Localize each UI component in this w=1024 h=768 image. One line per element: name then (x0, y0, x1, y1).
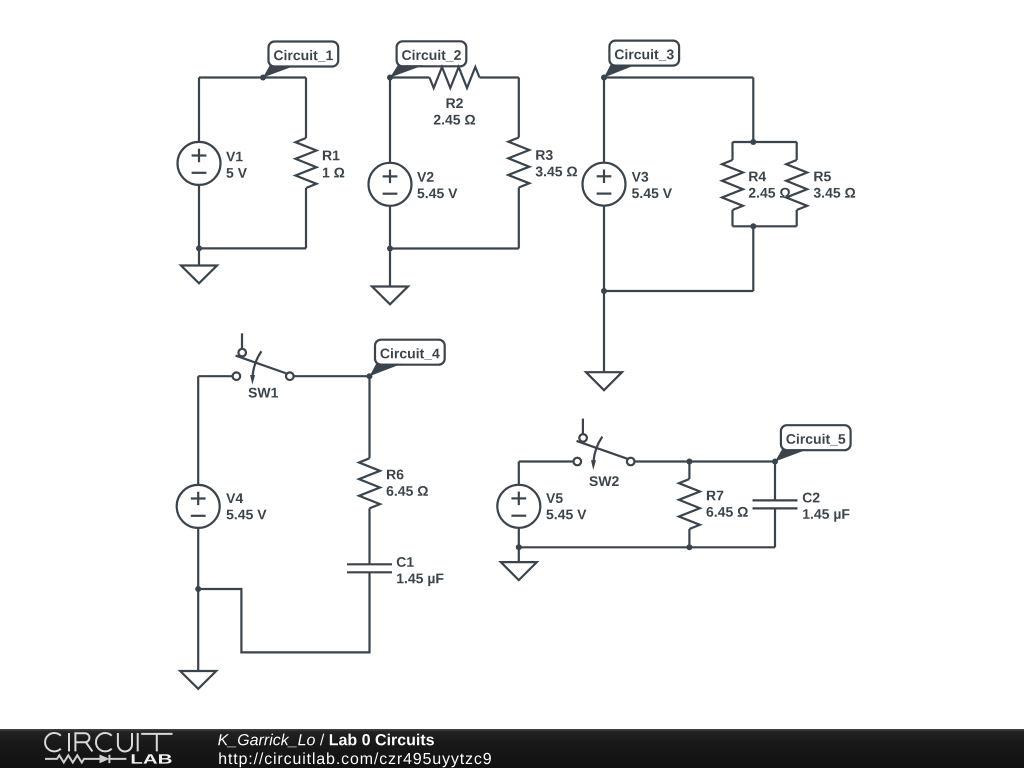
wire: circuit 2 left, V2- to bottom node (389, 206, 391, 249)
capacitor C1 1.45 µF (347, 564, 392, 572)
label V1 designator (226, 152, 243, 162)
label C2 value 1.45 µF (803, 509, 849, 522)
label V2 designator (417, 172, 434, 182)
wire: circuit 2 right, corner down to R3 (518, 78, 520, 138)
junction: parallel block top node (750, 139, 756, 145)
node Circuit_5 flag (775, 425, 851, 461)
wire: R7 bottom lead (688, 529, 690, 547)
label V3 designator (632, 172, 649, 182)
resistor R6 6.45 Ω (359, 458, 380, 508)
wire: circuit 1 top from node to R1 (199, 76, 306, 78)
label R1 designator (323, 151, 340, 161)
footer url (219, 752, 491, 767)
wire: circuit 1 left, V1- down to bottom node (198, 185, 200, 249)
junction: R7 bottom node (686, 544, 692, 550)
label R1 value 1 Ω (323, 168, 344, 178)
switch SW1 (233, 333, 294, 384)
wire: R5 top lead (796, 142, 798, 160)
wire: circuit 2 right, R3 down to bottom (518, 188, 520, 249)
wire: R5 bottom lead (796, 210, 798, 226)
wire: circuit 5 top-left corner to SW2 (519, 460, 574, 462)
wire: circuit 4 top-left to SW1 (198, 375, 232, 377)
wire: circuit 5 bottom (519, 546, 775, 548)
resistor R3 3.45 Ω (508, 138, 529, 188)
wire: circuit 1 bottom (199, 247, 306, 249)
wire: circuit 4 right, R6 to C1 (368, 508, 370, 564)
label V2 value 5.45 V (417, 189, 457, 199)
label SW1 designator (248, 388, 278, 398)
resistor R4 2.45 Ω (722, 160, 743, 210)
CircuitLab logo: LAB wordmark (132, 754, 172, 763)
label R5 value 3.45 Ω (814, 188, 856, 198)
node Circuit_2 flag (390, 41, 466, 77)
label R2 designator (447, 98, 463, 108)
wire: circuit 4 left, V4- to bottom node (197, 528, 199, 589)
wire: circuit 1 left, top node to V1+ (198, 78, 200, 143)
label SW2 designator (589, 476, 618, 486)
wire: circuit 4 return path from node to C1 bottom (198, 572, 369, 652)
junction: Circuit_2 node at top-left (387, 75, 393, 81)
junction: R7 top node (686, 459, 692, 465)
label V5 value 5.45 V (546, 510, 586, 520)
wire: circuit 3 right, top corner down to parallel block (752, 78, 754, 143)
label R2 value 2.45 Ω (434, 115, 475, 125)
footer title: author / project (218, 734, 315, 748)
label V1 value 5 V (226, 168, 247, 178)
wire: circuit 5 right, node down to C2 (774, 462, 776, 501)
voltage source V3 5.45 V (583, 163, 626, 206)
wire: circuit 3 bottom (604, 290, 753, 292)
wire: circuit 2 left, node to V2+ (389, 78, 391, 164)
wire: circuit 5 left, V5- to bottom node (518, 528, 520, 548)
node Circuit_3 flag (604, 41, 679, 78)
wire: circuit 3 top (604, 76, 753, 78)
label V4 value 5.45 V (227, 510, 267, 520)
wire: circuit 2 top-left to R2 (390, 76, 430, 78)
resistor R7 6.45 Ω (679, 479, 700, 529)
capacitor C2 1.45 µF (753, 500, 798, 508)
label C2 designator (803, 493, 820, 503)
wire: circuit 3 left, node to V3+ (603, 78, 605, 163)
ground: circuit 4 (180, 589, 216, 689)
wire: circuit 1 right, top to R1 (305, 78, 307, 139)
label V4 designator (226, 493, 243, 503)
wire: R4 bottom lead (731, 210, 733, 226)
label R7 designator (707, 491, 723, 501)
ground: circuit 3 (586, 291, 622, 390)
wire: circuit 2 bottom (390, 247, 519, 249)
label V3 value 5.45 V (632, 188, 672, 198)
junction: Circuit_1 node on top wire (260, 75, 266, 81)
ground: circuit 1 (181, 248, 217, 283)
switch SW2 (574, 419, 635, 470)
wire: circuit 3 right, parallel block down to bottom (752, 226, 754, 291)
junction: Circuit_3 node at top-left (601, 75, 607, 81)
CircuitLab logo: resistor-diode glyph (45, 755, 126, 764)
voltage source V4 5.45 V (177, 485, 220, 528)
wire: parallel block top bar (733, 141, 797, 143)
wire: circuit 4 right, node down to R6 (368, 376, 370, 458)
resistor R2 2.45 Ω (430, 67, 480, 88)
node Circuit_1 flag (263, 42, 338, 78)
label R7 value 6.45 Ω (707, 507, 748, 517)
wire: R7 top lead (688, 462, 690, 480)
junction: circuit 5 bottom-left node (516, 544, 522, 550)
wire: circuit 4 left, top to V4+ (197, 376, 199, 485)
label R3 value 3.45 Ω (536, 167, 578, 177)
label R3 designator (536, 150, 553, 160)
wire: parallel block bottom bar (733, 225, 797, 227)
wire: circuit 4 SW1 to top-right node (294, 375, 370, 377)
wire: R4 top lead (731, 142, 733, 160)
label R6 value 6.45 Ω (387, 486, 428, 496)
junction: Circuit_5 node at top-right (772, 459, 778, 465)
wire: circuit 5 right, C2 to bottom corner (774, 508, 776, 547)
label R6 designator (387, 470, 404, 480)
wire: circuit 2 R2 to top-right corner (480, 76, 519, 78)
label R4 designator (749, 172, 766, 182)
footer bar (0, 729, 1024, 768)
wire: circuit 5 R7 node to Circuit_5 node (689, 460, 775, 462)
junction: parallel block bottom node (750, 223, 756, 229)
junction: circuit 2 bottom-left node (387, 246, 393, 252)
wire: circuit 5 left, corner down to V5+ (518, 462, 520, 485)
label R5 designator (814, 172, 831, 182)
junction: Circuit_4 node at top-right (367, 373, 373, 379)
junction: circuit 1 bottom-left node (196, 245, 202, 251)
label C1 designator (397, 557, 414, 567)
resistor R1 1 Ω (296, 138, 317, 188)
wire: circuit 1 right, R1 to bottom (305, 188, 307, 248)
node Circuit_4 flag (370, 340, 445, 377)
wire: circuit 5 SW2 to R7 node (635, 460, 690, 462)
voltage source V1 5 V (178, 142, 221, 185)
wire: circuit 3 left, V3- to bottom node (603, 206, 605, 291)
ground: circuit 2 (372, 249, 408, 305)
junction: circuit 4 bottom-left node (195, 586, 201, 592)
voltage source V5 5.45 V (497, 485, 540, 528)
voltage source V2 5.45 V (369, 163, 412, 206)
resistor R5 3.45 Ω (786, 160, 807, 210)
label V5 designator (546, 493, 563, 503)
CircuitLab logo: CIRCUIT wordmark (45, 733, 172, 751)
ground: circuit 5 (501, 547, 537, 580)
junction: circuit 3 bottom-left node (601, 288, 607, 294)
label R4 value 2.45 Ω (749, 188, 790, 198)
label C1 value 1.45 µF (397, 574, 443, 587)
